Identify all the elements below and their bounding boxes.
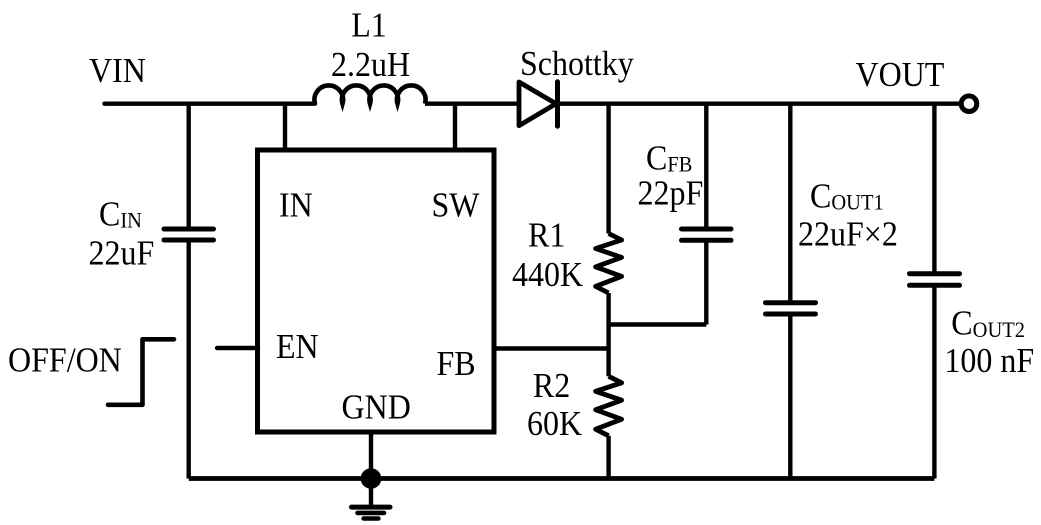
svg-text:22pF: 22pF [638, 174, 704, 212]
pin GND label [342, 388, 411, 426]
svg-text:R1: R1 [528, 217, 565, 255]
pin FB label [437, 345, 476, 383]
ground symbol [352, 507, 391, 518]
wire GND pin stub [369, 432, 373, 479]
resistor R1 [596, 234, 622, 294]
wire ground rail [189, 476, 935, 481]
capacitor COUT1 [766, 303, 816, 314]
capacitor CIN designator [99, 195, 142, 233]
resistor R1 value [512, 256, 583, 294]
wire CFB to FB node [609, 322, 707, 326]
wire EN pin stub [217, 346, 258, 350]
diode label Schottky [520, 45, 634, 83]
svg-text:VOUT: VOUT [856, 56, 945, 94]
node OFF/ON label [8, 341, 122, 379]
svg-text:440K: 440K [512, 256, 583, 294]
pin EN label [276, 328, 319, 366]
node ground junction [361, 468, 382, 489]
wire R2 to ground rail [606, 436, 610, 479]
inductor L1 value [331, 46, 410, 84]
wire IN pin stub [283, 104, 287, 150]
svg-text:IN: IN [279, 186, 313, 224]
inductor L1 designator [351, 7, 387, 45]
svg-text:OFF/ON: OFF/ON [8, 341, 122, 379]
svg-text:60K: 60K [527, 405, 582, 443]
wire ground stem [369, 479, 373, 506]
capacitor COUT1 value [798, 215, 898, 253]
terminal VOUT [961, 96, 977, 112]
svg-text:CIN: CIN [99, 195, 142, 233]
wire VIN input segment [105, 101, 316, 105]
resistor R2 [596, 376, 622, 436]
svg-text:L1: L1 [351, 7, 387, 45]
wire CFB branch lower [704, 240, 708, 324]
svg-text:FB: FB [437, 345, 476, 383]
capacitor COUT2 [910, 274, 960, 286]
resistor R1 designator [528, 217, 565, 255]
capacitor CIN value [89, 234, 155, 272]
wire COUT1 branch upper [788, 104, 792, 303]
svg-text:22uF×2: 22uF×2 [798, 215, 898, 253]
svg-text:100 nF: 100 nF [944, 342, 1034, 380]
svg-text:EN: EN [276, 328, 319, 366]
wire CIN branch lower [186, 240, 190, 479]
wire COUT2 branch upper [932, 104, 936, 274]
OFF/ON step waveform [108, 339, 174, 405]
capacitor CFB value [638, 174, 704, 212]
wire COUT1 branch lower [788, 314, 792, 479]
IC U1 body [258, 150, 495, 432]
wire COUT2 branch lower [932, 285, 936, 478]
capacitor CFB designator [646, 139, 692, 177]
pin IN label [279, 186, 313, 224]
wire R1 to R2 [606, 293, 610, 376]
capacitor COUT1 designator [810, 178, 884, 216]
resistor R2 value [527, 405, 582, 443]
diode D1 Schottky [519, 82, 556, 126]
wire SW pin stub [453, 104, 457, 150]
svg-text:Schottky: Schottky [520, 45, 634, 83]
svg-text:VIN: VIN [89, 52, 146, 90]
svg-text:CFB: CFB [646, 139, 692, 177]
svg-text:COUT2: COUT2 [951, 304, 1025, 342]
svg-text:COUT1: COUT1 [810, 178, 884, 216]
svg-text:22uF: 22uF [89, 234, 155, 272]
wire FB pin stub [494, 346, 609, 350]
capacitor COUT2 value [944, 342, 1034, 380]
svg-text:2.2uH: 2.2uH [331, 46, 410, 84]
capacitor CIN [164, 229, 214, 240]
svg-text:GND: GND [342, 388, 411, 426]
wire CFB branch upper [704, 104, 708, 229]
wire CIN branch upper [186, 104, 190, 229]
wire R1 branch upper [606, 104, 610, 234]
inductor L1 [314, 85, 425, 103]
node VIN label [89, 52, 146, 90]
resistor R2 designator [533, 367, 570, 405]
pin SW label [432, 186, 481, 224]
wire inductor to diode [425, 101, 519, 105]
capacitor COUT2 designator [951, 304, 1025, 342]
svg-text:R2: R2 [533, 367, 570, 405]
wire diode to VOUT [558, 101, 959, 105]
svg-text:SW: SW [432, 186, 481, 224]
capacitor CFB [682, 229, 732, 240]
node VOUT label [856, 56, 945, 94]
